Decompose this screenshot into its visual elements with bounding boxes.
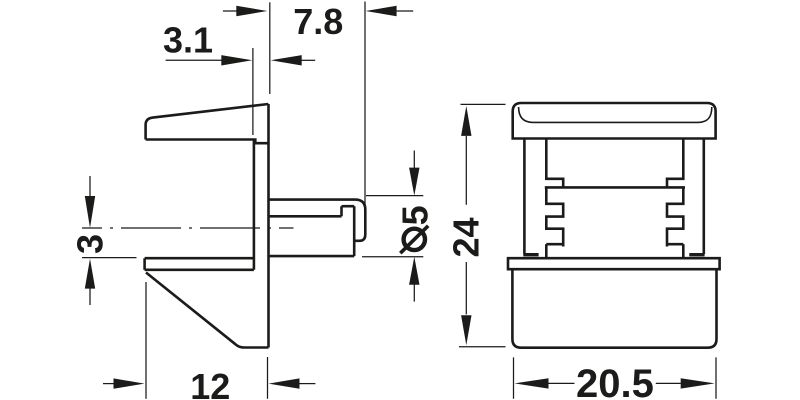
side view: bottom flange wedge diagonal and bottom — [146, 273, 269, 348]
side view: pin tab left vertical — [340, 206, 343, 216]
side view: top flange outline — [146, 104, 269, 140]
side view: bottom flange top line — [145, 257, 254, 260]
front view: expander body top edge — [545, 186, 685, 189]
side view: bottom flange second line — [145, 268, 254, 271]
front view: right arm foot — [689, 253, 704, 256]
front view: collar — [508, 258, 720, 269]
front view: lower sleeve body — [512, 269, 716, 348]
ext line 7.8 left — [269, 2, 271, 94]
dim 7.8 left arrow — [223, 10, 237, 12]
svg-text:3.1: 3.1 — [163, 19, 213, 60]
dim 3 top arrow — [89, 176, 91, 197]
svg-text:12: 12 — [190, 366, 230, 400]
centerline of pin (dash-dot) — [82, 227, 294, 229]
front view: right arm outer edge — [702, 139, 705, 255]
dim 3 bottom arrow — [89, 288, 91, 305]
ext line 20.5 left — [513, 357, 515, 398]
side view: top flange bottom edge with step — [146, 140, 269, 144]
front view: left arm outer edge — [523, 139, 526, 255]
side view: pin tip blade right vertical — [353, 206, 356, 256]
ext line dia5 top — [366, 195, 423, 197]
svg-text:3: 3 — [70, 234, 111, 254]
svg-text:5: 5 — [394, 205, 435, 225]
front view: right serrated strip — [667, 139, 683, 188]
svg-text:24: 24 — [445, 217, 486, 257]
dim 24 top arrow — [465, 136, 467, 205]
ext line 3.1 left — [252, 48, 254, 135]
dim 20.5 left arrow — [548, 382, 575, 384]
side view: pin tab top edge — [342, 205, 355, 208]
side view: vertical plate right edge — [267, 104, 270, 348]
front view: left serrated strip — [546, 139, 563, 188]
dim 12 right arrow — [300, 383, 316, 385]
dim 20.5 right arrow — [656, 382, 681, 384]
svg-text:20.5: 20.5 — [576, 362, 654, 400]
front view: cap outline — [513, 103, 716, 139]
dim 7.8 right arrow — [397, 10, 414, 12]
dim 3.1 left arrow — [166, 59, 223, 61]
svg-text:7.8: 7.8 — [293, 1, 343, 42]
front view: cap inner top-face line — [519, 107, 712, 122]
ext line 12 left — [145, 282, 147, 399]
label dia5: diameter symbol circle — [404, 229, 425, 250]
front view: left arm foot — [523, 253, 538, 256]
dim dia5 top arrow — [413, 151, 415, 169]
side view: pin bottom edge — [269, 255, 355, 258]
dim 24 bottom arrow — [465, 262, 467, 314]
ext line 7.8 right / pin tip — [364, 2, 366, 206]
dim dia5 bottom arrow — [413, 284, 415, 302]
ext line 20.5 right — [715, 357, 717, 398]
side view: vertical plate left edge — [253, 140, 256, 270]
dim 3.1 right arrow — [301, 59, 316, 61]
ext line 24 top — [461, 103, 506, 105]
side view: bottom flange left edge — [143, 258, 146, 270]
ext line dia5 bottom — [362, 256, 423, 258]
ext line 24 bottom — [459, 346, 506, 348]
ext line 12 right — [267, 357, 269, 399]
dim 12 left arrow — [103, 383, 115, 385]
ext line 3 bottom — [82, 257, 137, 259]
side view: pin top edge with rounded tip — [269, 200, 366, 241]
label dia5: diameter symbol slash — [400, 226, 428, 253]
side view: pin step line — [269, 215, 342, 218]
